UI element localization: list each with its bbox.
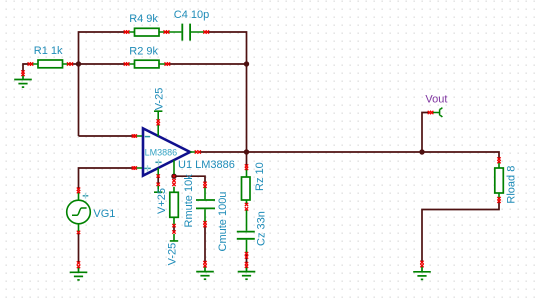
wire noninverting input to VG1	[79, 168, 134, 190]
wire mute node to Cmute	[174, 176, 205, 183]
node E pin mark	[173, 175, 176, 178]
jumper V-25 under Rmute	[170, 234, 178, 241]
svg-text:Rmute 10k: Rmute 10k	[183, 174, 195, 228]
svg-text:Cmute 100u: Cmute 100u	[217, 192, 229, 252]
resistor R2	[127, 60, 167, 68]
svg-text:LM3886: LM3886	[145, 148, 178, 158]
op-amp V- pin	[157, 124, 159, 136]
wire R1 to node A	[72, 63, 79, 65]
op-amp plus input mark	[144, 167, 151, 169]
svg-text:Cz 33n: Cz 33n	[255, 211, 267, 246]
op-amp plus supply mark	[155, 161, 161, 163]
ground Rload	[413, 266, 431, 279]
svg-text:U1 LM3886: U1 LM3886	[178, 159, 235, 171]
svg-text:R2 9k: R2 9k	[129, 46, 158, 58]
wire Vout stem	[422, 113, 429, 153]
node D Vout junction	[419, 149, 424, 154]
ground Cmute	[196, 266, 214, 279]
wire Rload bottom to ground	[422, 202, 499, 263]
capacitor Cmute	[196, 187, 215, 223]
node A junction	[76, 61, 81, 66]
wire node A to R2	[79, 63, 126, 65]
svg-text:Rload 8: Rload 8	[505, 166, 517, 204]
svg-text:Rz 10: Rz 10	[254, 162, 266, 191]
svg-text:C4 10p: C4 10p	[174, 9, 209, 21]
VG1 plus mark	[83, 195, 89, 197]
node B junction	[244, 61, 249, 66]
wire VG1 to ground	[78, 233, 80, 264]
op-amp U1	[135, 124, 196, 175]
op-amp input stubs	[135, 136, 196, 168]
svg-text:V-25: V-25	[153, 88, 165, 111]
node E mute junction	[171, 174, 176, 179]
svg-text:R4 9k: R4 9k	[129, 13, 158, 25]
wire R1 to ground	[23, 64, 30, 72]
wire inverting input	[79, 135, 134, 137]
wire R2 to node B	[169, 63, 247, 65]
resistor Rmute	[170, 187, 179, 225]
wire output rail	[200, 152, 499, 159]
ground VG1	[70, 267, 88, 280]
jumper V+25	[154, 186, 162, 193]
wire opamp V+ pin segment	[157, 177, 159, 184]
svg-text:V+25: V+25	[156, 188, 168, 214]
svg-text:R1 1k: R1 1k	[34, 45, 63, 57]
op-amp V+ pin	[157, 168, 159, 176]
wire Cmute to ground	[204, 226, 206, 263]
wire Cz to ground segment	[246, 254, 248, 264]
voltage probe Vout	[432, 108, 442, 117]
source VG1	[67, 192, 91, 231]
resistor R1	[31, 60, 71, 68]
jumper V-25 top	[154, 111, 162, 120]
resistor Rload	[495, 163, 504, 199]
ground top-left	[14, 74, 32, 87]
pin marks	[21, 30, 500, 268]
ground Cz	[238, 266, 256, 279]
capacitor C4	[167, 24, 207, 41]
node C output junction	[244, 149, 249, 154]
resistor R4	[127, 28, 167, 36]
wire Rmute lower segment	[173, 226, 175, 232]
resistor Rz	[242, 169, 251, 204]
wire top feedback rail left	[79, 32, 125, 136]
capacitor Cz	[237, 210, 255, 253]
op-amp mute pin	[173, 160, 175, 174]
svg-text:VG1: VG1	[93, 208, 115, 220]
op-amp minus mark	[145, 136, 150, 138]
svg-text:Vout: Vout	[425, 93, 447, 105]
svg-text:V-25: V-25	[166, 243, 178, 266]
wire top rail right / right rail down	[208, 32, 247, 166]
